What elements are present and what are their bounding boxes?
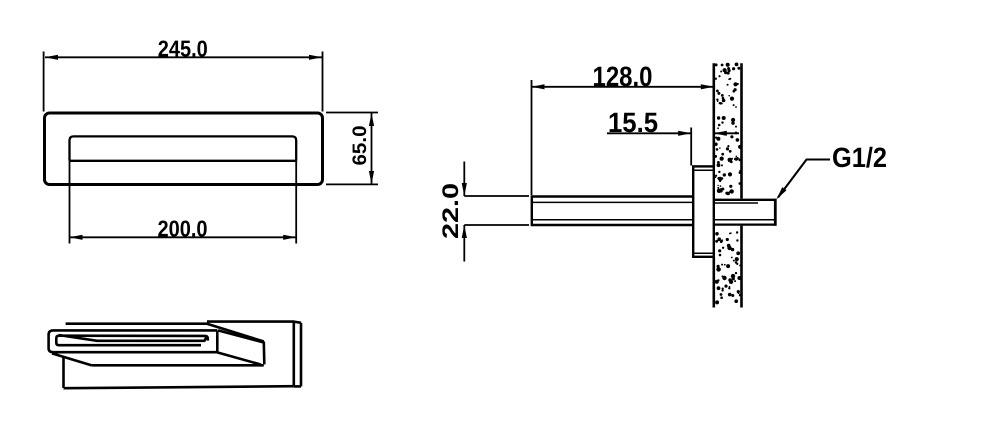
dimension 22.0 xyxy=(464,162,529,262)
slot opening xyxy=(70,136,297,160)
lower body front edge xyxy=(91,364,263,367)
wall speckle texture xyxy=(714,63,742,305)
svg-text:245.0: 245.0 xyxy=(158,36,208,62)
ext lines xyxy=(43,52,45,112)
slot outer xyxy=(56,336,201,346)
side face right edge xyxy=(262,342,265,365)
lower body top-left diagonal xyxy=(52,353,91,365)
bottom edge xyxy=(64,386,294,388)
svg-text:65.0: 65.0 xyxy=(349,125,371,165)
svg-text:200.0: 200.0 xyxy=(158,216,208,242)
dimension 128.0 xyxy=(532,80,714,195)
wall flange xyxy=(693,166,714,256)
spout body outline xyxy=(45,113,323,185)
slot bottom line xyxy=(70,160,297,162)
top face right diagonal xyxy=(207,324,264,342)
back plate top edge xyxy=(207,320,294,323)
lower body left edge xyxy=(62,357,65,388)
dimension 15.5 xyxy=(607,128,739,166)
back plate right edges xyxy=(292,322,295,387)
side face bottom diagonal xyxy=(217,352,261,364)
svg-text:15.5: 15.5 xyxy=(608,107,658,138)
G1/2 label + leader xyxy=(778,160,830,198)
dimension 65.0 xyxy=(326,113,378,185)
front face right diagonal xyxy=(218,330,264,342)
slot outer right corner xyxy=(206,336,208,341)
dimension 245.0 xyxy=(44,52,323,112)
slot inner back edge xyxy=(59,335,207,341)
spout body side xyxy=(532,195,693,226)
arrowheads 245 xyxy=(45,55,58,60)
dimension 200.0 xyxy=(70,161,297,244)
front face right edge xyxy=(216,330,219,352)
far top edge of body xyxy=(66,322,208,325)
svg-text:G1/2: G1/2 xyxy=(832,142,887,173)
dim line xyxy=(45,56,322,58)
svg-text:22.0: 22.0 xyxy=(438,183,463,239)
top front edge + left end outline xyxy=(49,330,218,352)
pipe through wall (G1/2 nipple) xyxy=(714,199,776,226)
wall edges xyxy=(714,63,742,307)
svg-text:128.0: 128.0 xyxy=(593,61,653,92)
